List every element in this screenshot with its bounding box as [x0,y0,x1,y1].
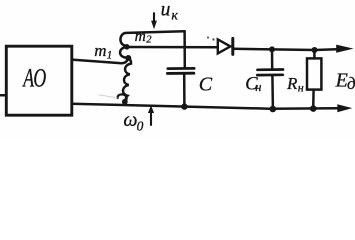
arrowhead of w0 arrow [148,105,154,113]
arrow of w0 (resonant frequency, pointing up) [150,112,152,125]
arrow of uk (voltage across tank, pointing down) [153,13,155,22]
node (Cn at top rail) [269,46,275,52]
svg-text:д: д [347,74,355,93]
wire (top rail, coil tap m2 to diode anode) [127,46,218,49]
node (Rn at bottom rail) [310,105,317,112]
capacitor Cn bottom plate [257,73,283,76]
wire (resistor Rn to bottom rail) [312,90,315,109]
inductor L winding scallops [123,58,131,100]
svg-text:C: C [199,73,213,95]
svg-text:m: m [135,28,146,45]
svg-text:н: н [255,80,261,94]
inductor L top turn (m2 loop) [120,31,184,46]
svg-text:н: н [298,81,304,95]
arrowhead output bottom (E_d terminal) [337,104,352,112]
node (capacitor C at bottom rail) [181,103,187,109]
diode VD triangle (anode) [218,39,231,53]
input stub (left terminal of AO) [0,94,6,97]
svg-text:1: 1 [107,49,113,61]
speck (scan noise) [212,38,214,40]
node A (m2 tap junction) [124,44,130,50]
node B (m1 tap junction) [125,55,131,61]
capacitor C top plate [168,67,194,70]
resistor Rn top lead [313,50,316,58]
capacitor Cn top plate [258,68,284,71]
block AO (amplitude limiter) [6,46,72,115]
inductor L second turn (C-curve) [120,47,128,58]
svg-text:0: 0 [137,119,144,134]
wire (top rail, diode cathode to output arrow) [233,49,337,50]
faint trace to coil bottom curl [99,95,117,98]
svg-text:2: 2 [146,35,152,46]
svg-text:m: m [94,41,106,60]
inductor L bottom end curl [118,94,127,101]
svg-text:ω: ω [123,109,137,131]
node (Rn at top rail) [312,47,318,53]
speck (scan noise) [207,36,209,38]
resistor Rn body [307,58,321,89]
wire (capacitor C to bottom rail) [183,74,186,106]
svg-text:Е: Е [335,69,348,91]
svg-text:АО: АО [22,63,46,93]
node (coil bottom to rail) [122,99,128,105]
svg-text:R: R [286,74,298,93]
diode VD cathode bar [231,38,234,54]
wire (capacitor Cn to bottom rail) [271,75,274,109]
capacitor Cn top lead [271,49,274,69]
node (Cn at bottom rail) [270,106,277,113]
arrowhead output top (E_d terminal) [336,45,353,53]
wire (AO top output to coil tap m1) [72,59,128,64]
capacitor C bottom plate [167,72,193,75]
arrowhead of uk arrow [151,21,157,30]
svg-text:к: к [171,8,178,23]
wire (bottom rail, AO to output arrow) [72,104,338,109]
svg-text:и: и [161,0,171,20]
wire (coil top loop right end down to capacitor C) [183,31,186,67]
